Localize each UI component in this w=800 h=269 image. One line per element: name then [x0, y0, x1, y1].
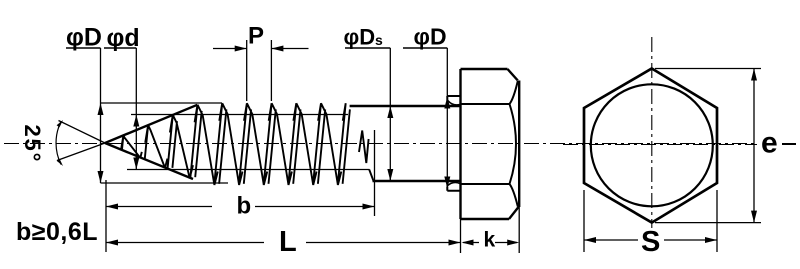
thread root reference lines (minor dia)	[127, 115, 370, 170]
extension lines e	[655, 69, 761, 223]
svg-text:e: e	[761, 127, 778, 160]
dimension line L	[106, 242, 461, 244]
tip angle construction lines	[57, 121, 105, 161]
svg-text:b: b	[237, 193, 252, 220]
underline phid root	[104, 47, 136, 49]
extension lines b	[106, 130, 375, 252]
svg-text:25°: 25°	[20, 125, 45, 164]
underline phiDs	[345, 47, 390, 49]
extension line L right (head face)	[460, 219, 462, 253]
arrows e	[751, 69, 757, 223]
centerline hex horizontal	[563, 144, 796, 146]
arrows phiD thread	[98, 103, 104, 183]
svg-text:L: L	[279, 226, 297, 258]
hexagon head end view	[584, 69, 717, 223]
underhead fillet arcs	[447, 101, 461, 187]
dimension line k	[463, 242, 517, 244]
dimension line e	[753, 69, 755, 223]
screw tip cone outline	[105, 105, 197, 179]
tip angle dimension arc	[56, 120, 63, 166]
plain shank outline	[350, 106, 461, 181]
arrows phiD head	[444, 97, 450, 189]
hex head side view outline	[461, 69, 520, 219]
extension line k right	[518, 207, 520, 253]
svg-text:S: S	[641, 226, 660, 258]
dimension line pitch P	[213, 48, 309, 50]
underline phiD thread	[66, 47, 101, 49]
extension lines pitch P	[247, 40, 272, 101]
arrows phid root	[133, 115, 139, 170]
dimension line S	[584, 239, 717, 241]
svg-text:φD: φD	[344, 25, 376, 50]
extension lines S	[584, 190, 717, 252]
dimension line phiDs shank	[389, 48, 391, 181]
svg-text:s: s	[375, 32, 383, 48]
hex head face division lines	[461, 104, 510, 184]
inscribed chamfer circle	[591, 84, 713, 206]
svg-text:k: k	[484, 229, 496, 252]
dimension line b	[106, 206, 375, 208]
dimension line phiD thread	[100, 48, 102, 183]
svg-text:φD: φD	[414, 24, 447, 50]
arrows phiDs shank	[387, 106, 393, 181]
arrows k	[462, 240, 520, 246]
arrows L	[106, 240, 461, 246]
arrows b	[106, 204, 375, 210]
arrows pitch P	[235, 46, 284, 52]
svg-text:b≥0,6L: b≥0,6L	[16, 218, 98, 246]
wire centerline of screw axis	[4, 143, 796, 145]
thread crest reference lines (major dia)	[101, 103, 229, 183]
washer face under head	[447, 96, 460, 191]
dimension line phid root	[135, 48, 137, 170]
hex head chamfer arcs	[510, 81, 518, 207]
dimension line phiD head	[446, 48, 448, 186]
thread helix teeth	[121, 103, 374, 185]
svg-text:P: P	[248, 23, 264, 50]
underline phiD head	[403, 47, 447, 49]
arrows S	[584, 237, 717, 243]
centerline hex vertical	[651, 37, 653, 228]
